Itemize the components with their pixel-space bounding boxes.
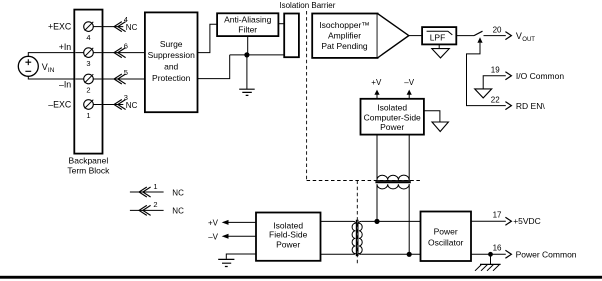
wire amplifier to LPF	[409, 35, 422, 37]
svg-text:19: 19	[491, 65, 500, 74]
wire surge block to analog common node	[198, 55, 230, 79]
svg-text:5: 5	[124, 68, 128, 77]
svg-text:NC: NC	[172, 207, 184, 216]
wire surge block to anti-aliasing filter	[198, 24, 218, 52]
svg-text:NC: NC	[126, 101, 138, 110]
svg-text:2: 2	[153, 200, 157, 209]
pin 6 wire to surge block	[103, 41, 145, 57]
svg-text:Backpanel: Backpanel	[69, 155, 109, 165]
svg-text:Isochopper™: Isochopper™	[319, 20, 370, 30]
+V computer-side output arrow	[371, 78, 382, 99]
svg-text:Power: Power	[276, 240, 300, 250]
svg-text:–In: –In	[59, 79, 71, 89]
junction dot pin 16	[488, 252, 493, 257]
pin 19 I/O Common	[483, 65, 564, 89]
svg-text:Power Common: Power Common	[516, 249, 577, 259]
wire +In from VIN to terminal 3	[28, 53, 74, 57]
svg-text:2: 2	[86, 86, 90, 95]
ground field-side analog common	[239, 55, 255, 96]
ground computer-side power	[424, 111, 449, 132]
terminal 3	[75, 48, 101, 68]
svg-text:LPF: LPF	[430, 32, 446, 42]
transformer T1 computer-side	[375, 135, 410, 255]
svg-text:–EXC: –EXC	[48, 100, 72, 110]
svg-text:and: and	[164, 61, 178, 71]
op-amp U1 Isochopper amplifier	[312, 14, 409, 58]
svg-text:Oscillator: Oscillator	[428, 238, 464, 248]
pin 5 wire to surge block	[103, 68, 145, 84]
svg-text:Computer-Side: Computer-Side	[364, 113, 421, 123]
svg-text:RD EN\: RD EN\	[516, 101, 545, 111]
svg-text:3: 3	[86, 59, 90, 68]
-V field-side output arrow	[208, 232, 256, 241]
svg-text:IN: IN	[48, 67, 55, 74]
isolated computer-side power block	[361, 99, 424, 135]
isolated field-side power block	[256, 213, 321, 261]
junction dot +5V net	[374, 219, 379, 224]
svg-text:Anti-Aliasing: Anti-Aliasing	[224, 15, 272, 25]
svg-text:Power: Power	[434, 227, 458, 237]
wire field-side power to T2 primary top	[321, 220, 354, 222]
wire T2 secondary top to power oscillator	[361, 220, 420, 222]
pin 1 NC stub	[130, 182, 184, 198]
isolation barrier dashed line vertical through T2	[356, 181, 358, 266]
junction dot analog common	[244, 52, 249, 57]
svg-text:+V: +V	[371, 78, 382, 87]
-V computer-side output arrow	[404, 78, 414, 99]
svg-text:Surge: Surge	[160, 39, 183, 49]
svg-text:22: 22	[491, 95, 500, 104]
power oscillator block	[421, 212, 472, 262]
backpanel term block	[67, 10, 110, 176]
svg-text:+In: +In	[59, 42, 72, 52]
svg-text:+5VDC: +5VDC	[513, 216, 541, 226]
pin 2 NC stub	[130, 200, 184, 216]
svg-text:Power: Power	[380, 122, 404, 132]
svg-text:1: 1	[86, 111, 90, 120]
svg-text:4: 4	[86, 33, 90, 42]
svg-text:Suppression: Suppression	[148, 50, 196, 60]
pin 4 NC stub	[103, 15, 138, 32]
surge suppression and protection block	[145, 12, 198, 112]
svg-text:V: V	[516, 31, 522, 41]
svg-text:16: 16	[493, 244, 502, 253]
svg-text:OUT: OUT	[522, 37, 535, 43]
isolation barrier dashed line vertical signal side	[306, 11, 308, 181]
svg-text:Term Block: Term Block	[67, 165, 110, 175]
wire -In from VIN to terminal 2	[28, 76, 74, 79]
svg-text:Protection: Protection	[152, 73, 191, 83]
svg-text:Filter: Filter	[238, 25, 257, 35]
wire filter output to modulator	[278, 23, 284, 25]
svg-text:6: 6	[124, 41, 128, 50]
voltage source VIN	[18, 56, 54, 76]
wire T2 secondary bottom to power oscillator	[361, 253, 420, 255]
svg-text:I/O Common: I/O Common	[516, 71, 564, 81]
junction dot power common net	[407, 252, 412, 257]
modulator input block	[284, 14, 299, 58]
switch S1 controlled by RD EN	[467, 31, 506, 105]
svg-text:–V: –V	[404, 78, 414, 87]
wire field-side power to T2 primary bottom	[321, 253, 354, 255]
chassis ground at pin 16	[475, 254, 501, 270]
terminal 4	[84, 22, 102, 42]
svg-text:+V: +V	[208, 218, 219, 227]
svg-text:NC: NC	[172, 188, 184, 197]
pin 22 RD EN	[491, 95, 546, 111]
svg-text:Amplifier: Amplifier	[328, 31, 361, 41]
pin 17 +5VDC	[471, 210, 541, 226]
pin 20 VOUT	[493, 25, 536, 43]
isolation barrier dashed line horizontal through T1	[307, 180, 422, 182]
+V field-side output arrow	[208, 218, 256, 227]
svg-text:Pat Pending: Pat Pending	[321, 41, 368, 51]
wire analog common to modulator	[230, 54, 285, 56]
svg-text:20: 20	[493, 25, 502, 34]
ground I/O common	[475, 89, 492, 98]
wire filter ground stem	[247, 36, 249, 55]
svg-text:–V: –V	[208, 232, 218, 241]
low-pass filter LPF	[422, 27, 456, 44]
ground field-side power	[218, 254, 256, 267]
svg-text:Isolation Barrier: Isolation Barrier	[279, 1, 335, 10]
svg-text:17: 17	[493, 210, 502, 219]
terminal 2	[75, 74, 101, 94]
pin 16 Power Common	[471, 244, 577, 260]
svg-text:NC: NC	[126, 23, 138, 32]
terminal 1	[84, 100, 102, 120]
wire LPF to output switch	[456, 35, 474, 37]
svg-text:+EXC: +EXC	[48, 21, 72, 31]
transformer T2 field-side	[352, 220, 362, 256]
ground below LPF	[432, 44, 450, 58]
svg-text:1: 1	[153, 182, 157, 191]
svg-text:Isolated: Isolated	[377, 102, 407, 112]
anti-aliasing filter block	[217, 13, 278, 36]
pin 3 NC stub	[103, 93, 138, 110]
svg-text:Field-Side: Field-Side	[269, 230, 308, 240]
